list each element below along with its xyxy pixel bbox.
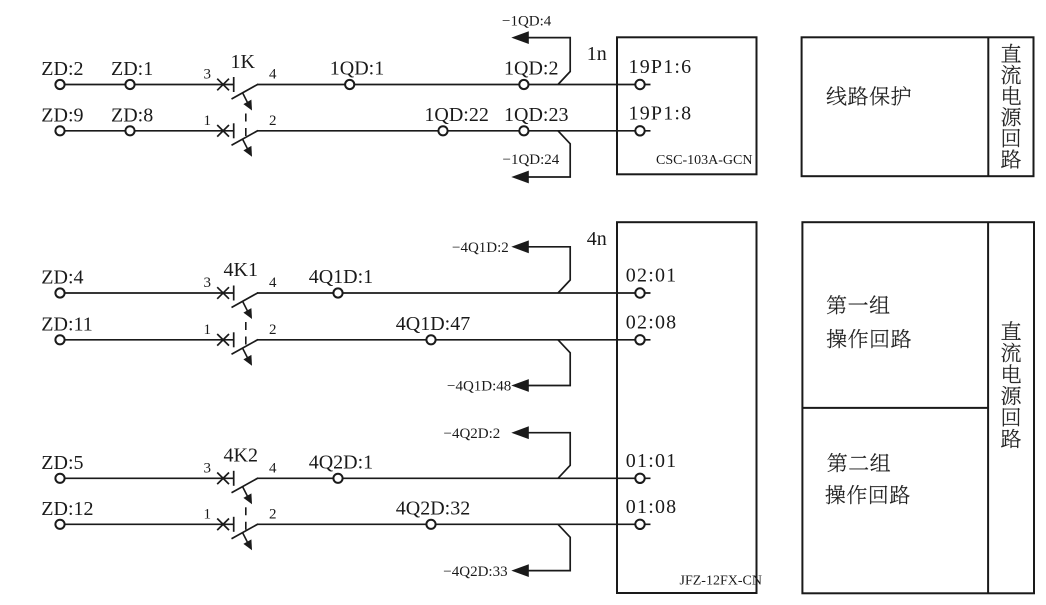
svg-text:1: 1: [204, 322, 212, 338]
svg-text:ZD:11: ZD:11: [41, 313, 92, 335]
svg-text:ZD:8: ZD:8: [111, 104, 153, 126]
svg-text:1QD:2: 1QD:2: [504, 58, 558, 80]
svg-text:1QD:22: 1QD:22: [424, 104, 488, 126]
svg-text:−4Q2D:33: −4Q2D:33: [443, 564, 507, 580]
svg-text:19P1:6: 19P1:6: [629, 56, 693, 78]
svg-text:ZD:9: ZD:9: [41, 104, 83, 126]
svg-text:−4Q1D:2: −4Q1D:2: [452, 240, 509, 256]
svg-text:3: 3: [204, 275, 212, 291]
svg-text:01:01: 01:01: [626, 450, 678, 472]
svg-text:2: 2: [269, 506, 277, 522]
svg-text:4Q1D:47: 4Q1D:47: [396, 313, 470, 335]
svg-text:02:01: 02:01: [626, 265, 678, 287]
svg-text:4: 4: [269, 460, 277, 476]
svg-text:−1QD:24: −1QD:24: [503, 152, 560, 168]
svg-text:3: 3: [204, 67, 212, 83]
svg-text:ZD:12: ZD:12: [41, 498, 93, 520]
svg-text:01:08: 01:08: [626, 496, 678, 518]
svg-text:2: 2: [269, 322, 277, 338]
svg-text:1: 1: [204, 507, 212, 523]
svg-text:4Q1D:1: 4Q1D:1: [309, 266, 373, 288]
svg-text:1QD:23: 1QD:23: [504, 104, 568, 126]
svg-text:4: 4: [269, 67, 277, 83]
svg-text:1QD:1: 1QD:1: [330, 58, 384, 80]
svg-text:4K2: 4K2: [224, 444, 258, 466]
svg-text:−1QD:4: −1QD:4: [502, 14, 552, 30]
svg-text:CSC-103A-GCN: CSC-103A-GCN: [656, 153, 752, 168]
svg-text:02:08: 02:08: [626, 311, 678, 333]
svg-text:4Q2D:1: 4Q2D:1: [309, 451, 373, 473]
svg-text:3: 3: [204, 461, 212, 477]
svg-text:−4Q2D:2: −4Q2D:2: [444, 426, 501, 442]
svg-text:4n: 4n: [587, 228, 607, 250]
svg-text:ZD:2: ZD:2: [41, 58, 83, 80]
svg-text:4Q2D:32: 4Q2D:32: [396, 497, 470, 519]
svg-text:4K1: 4K1: [224, 259, 258, 281]
svg-text:JFZ-12FX-CN: JFZ-12FX-CN: [680, 574, 762, 589]
svg-text:1K: 1K: [231, 51, 256, 73]
svg-text:1: 1: [204, 113, 212, 129]
svg-text:2: 2: [269, 113, 277, 129]
svg-text:ZD:1: ZD:1: [111, 58, 153, 80]
svg-text:4: 4: [269, 275, 277, 291]
svg-text:19P1:8: 19P1:8: [629, 102, 693, 124]
svg-text:ZD:5: ZD:5: [41, 452, 83, 474]
svg-text:1n: 1n: [587, 43, 607, 65]
svg-text:−4Q1D:48: −4Q1D:48: [447, 379, 511, 395]
svg-text:ZD:4: ZD:4: [41, 267, 83, 289]
